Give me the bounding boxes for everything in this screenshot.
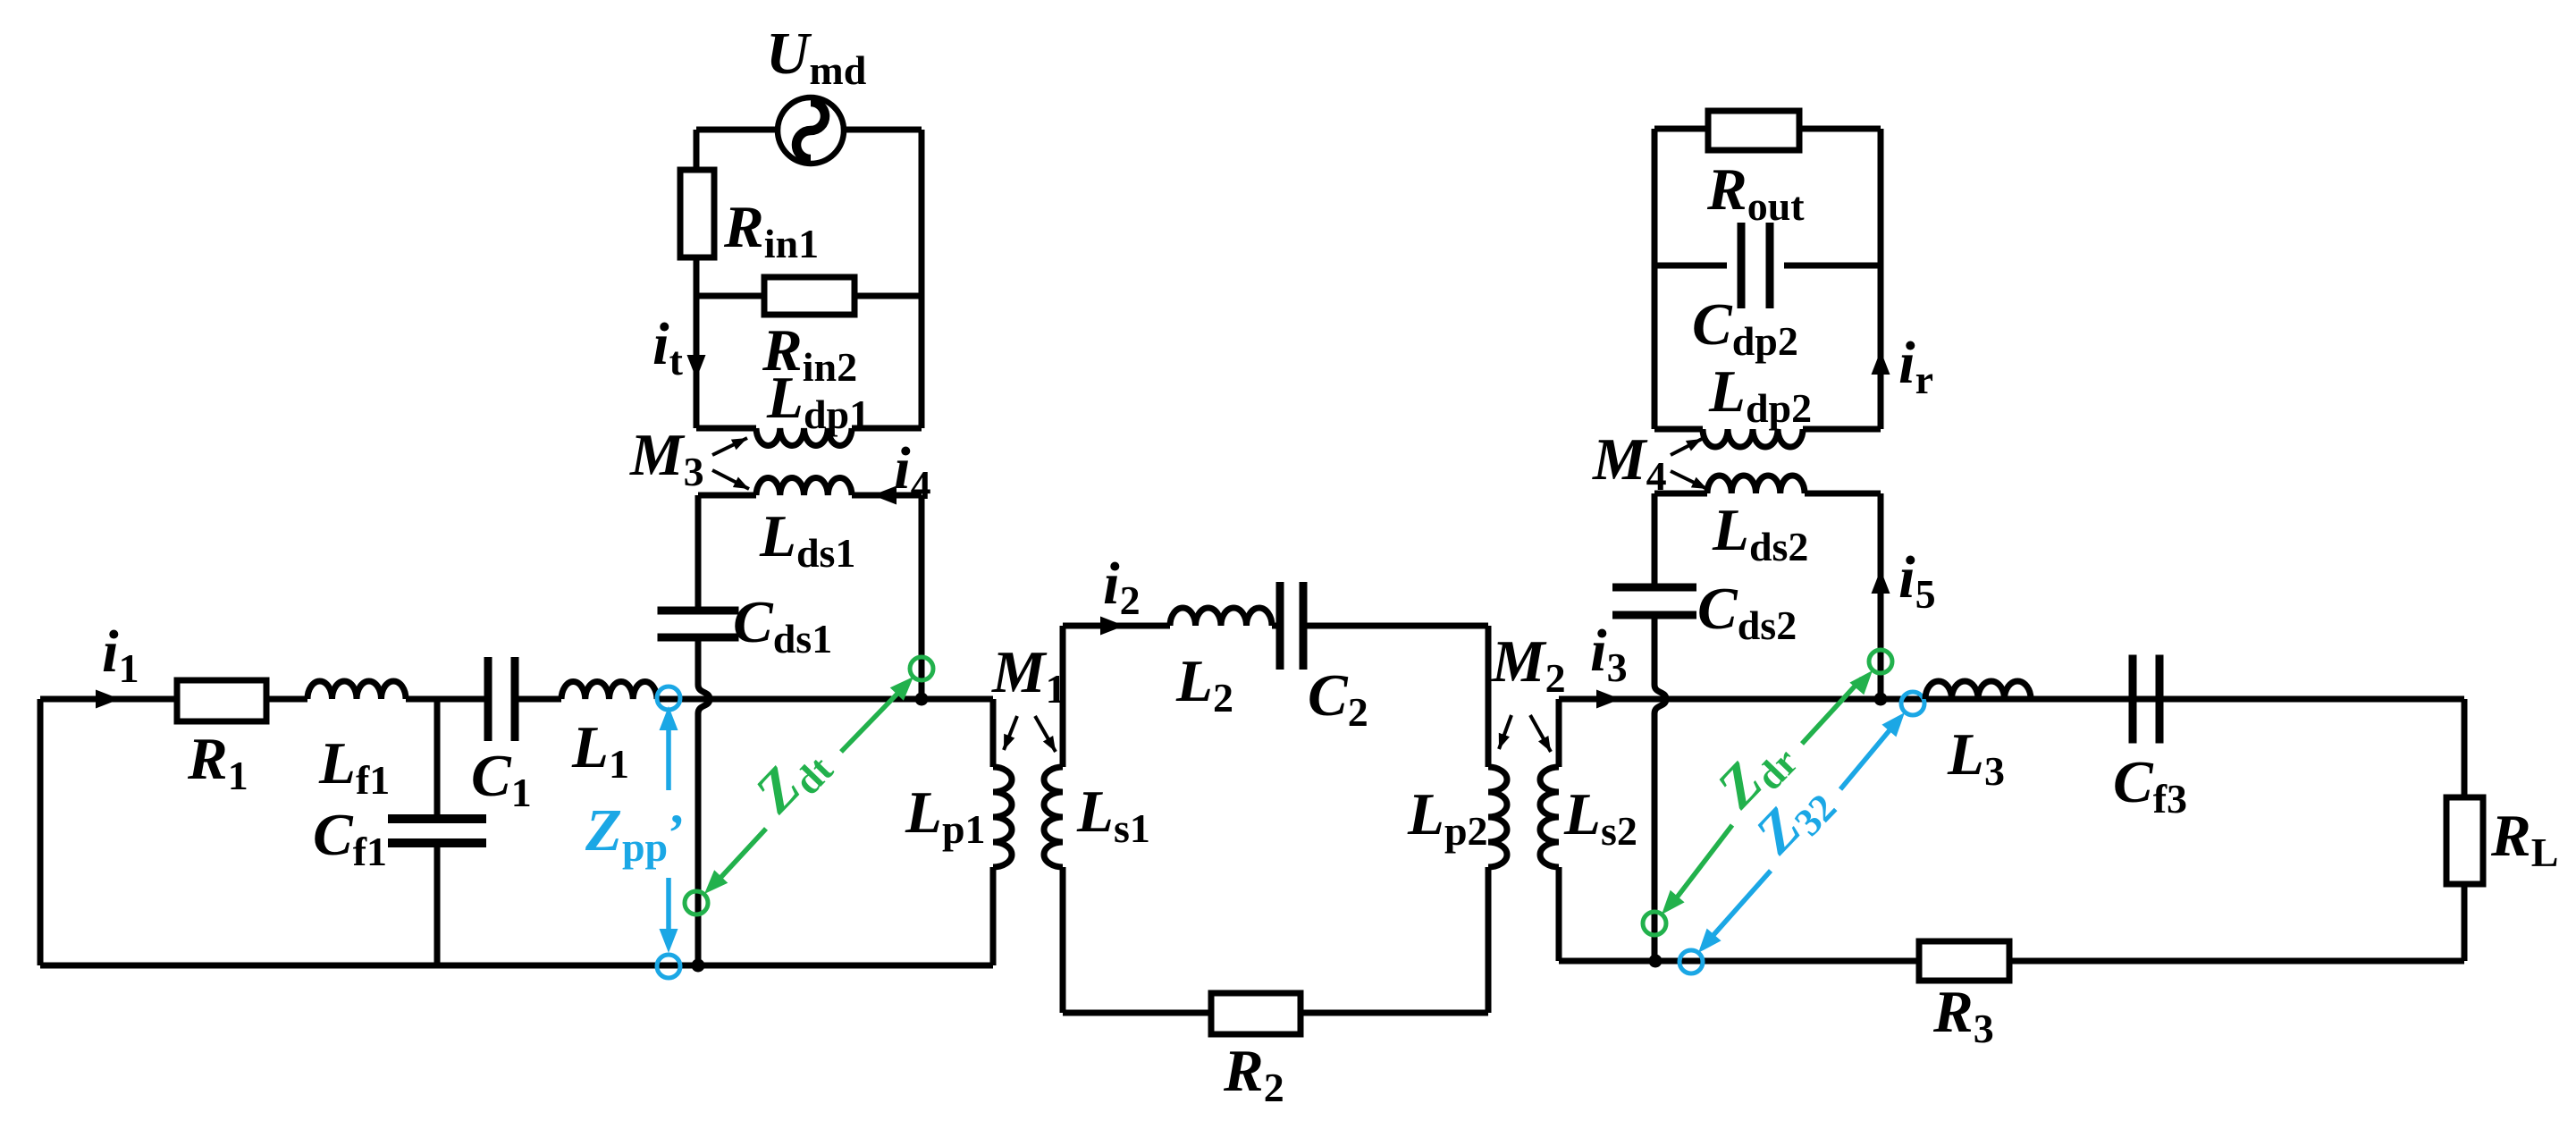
wire middle top left [1063, 623, 1170, 629]
svg-text:Rin1: Rin1 [723, 194, 819, 266]
node circle Zdt lower [685, 891, 708, 914]
svg-text:R3: R3 [1932, 979, 1994, 1051]
wire top loop left rail upper [694, 130, 700, 170]
wire top loop right rail [919, 130, 925, 428]
node circle Z32 bottom [1679, 950, 1703, 973]
svg-text:Lds2: Lds2 [1712, 497, 1808, 569]
inductor Lp1 [993, 767, 1012, 867]
svg-text:L3: L3 [1947, 721, 2005, 794]
label Zdt [742, 729, 841, 829]
capacitor Cf1 [388, 814, 486, 823]
impedance marker Zpp arrow up [660, 706, 678, 730]
junction dot bottom left [692, 959, 705, 973]
svg-text:Umd: Umd [766, 21, 867, 93]
wire out loop bottom left [1654, 426, 1703, 433]
inductor Ldp2 [1703, 429, 1803, 447]
svg-text:Zdt: Zdt [742, 729, 841, 829]
inductor L1 [561, 682, 657, 699]
node circle Zdt upper [910, 657, 933, 680]
wire C2 to corner [1303, 623, 1488, 629]
capacitor Cdp2 [1738, 223, 1746, 308]
capacitor Cf3 [2129, 655, 2137, 744]
svg-text:RL: RL [2490, 803, 2558, 875]
inductor L3 [1925, 681, 2031, 699]
coupling arrow M3 lower [712, 470, 749, 489]
svg-text:Zpp’: Zpp’ [585, 797, 685, 870]
wire Lds1 top right [852, 493, 922, 499]
inductor Lf1 [307, 681, 406, 699]
svg-text:M3: M3 [629, 422, 704, 494]
junction dot i5 node [1874, 693, 1888, 706]
inductor L2 [1170, 608, 1272, 626]
impedance marker Zdt arrow lower [704, 870, 728, 894]
wire Lp1 rail lower [990, 867, 997, 965]
wire Lds1 top left [698, 493, 756, 499]
wire Rin2 row right [854, 293, 922, 299]
inductor Lds2 [1707, 476, 1805, 493]
current arrow i4 [872, 486, 897, 505]
coupling arrow M2 left [1499, 715, 1511, 749]
label Z32 [1742, 768, 1845, 871]
coupling arrow M2 right [1530, 715, 1551, 752]
capacitor Cds1 [658, 607, 739, 615]
wire Lp1 rail upper [990, 699, 997, 767]
svg-text:C1: C1 [471, 743, 532, 815]
impedance marker Zdt arrow upper [841, 694, 897, 752]
wire main right [1559, 696, 2464, 703]
resistor Rout [1708, 111, 1799, 150]
wire Lp2 rail upper [1486, 626, 1492, 767]
junction dot main node t [915, 693, 929, 706]
svg-text:it: it [652, 311, 684, 383]
current arrow i2 [1100, 617, 1124, 636]
svg-text:Ls1: Ls1 [1076, 779, 1150, 851]
coupling arrow M4 upper [1671, 439, 1702, 455]
wire out loop top right [1799, 126, 1881, 132]
svg-text:Cds2: Cds2 [1697, 576, 1797, 648]
wire Ls1 rail lower [1060, 867, 1066, 1013]
wire out loop right rail [1878, 129, 1884, 429]
capacitor C2 [1276, 582, 1284, 670]
wire top loop left rail lower [694, 257, 700, 428]
svg-text:Ls2: Ls2 [1563, 781, 1637, 854]
current arrow it [687, 355, 706, 379]
svg-text:Lp1: Lp1 [905, 779, 986, 852]
node circle Zdr top [1869, 650, 1892, 673]
impedance marker Z32 arrow upper [1840, 725, 1894, 789]
svg-text:Cf3: Cf3 [2113, 749, 2187, 821]
svg-text:i2: i2 [1103, 551, 1141, 623]
impedance marker Z32 arrow lower [1698, 929, 1722, 953]
wire Lf1 to C1 [406, 696, 484, 703]
wire L1 to Lp1 corner [657, 696, 993, 703]
current arrow ir [1872, 350, 1890, 375]
wire Lds1 right rail [919, 495, 925, 699]
wire L2 to C2 [1272, 623, 1280, 629]
coupling arrow M1 left [1004, 716, 1017, 750]
label Zdr [1704, 722, 1806, 825]
svg-text:Cf1: Cf1 [313, 802, 387, 874]
wire hop Cds1 branch over main wire [698, 636, 710, 965]
wire out loop left rail [1652, 129, 1658, 429]
wire Ls1 rail upper [1060, 626, 1066, 767]
svg-text:Lds1: Lds1 [759, 503, 855, 576]
inductor Lds1 [756, 478, 852, 495]
wire Lds2 left rail upper [1652, 493, 1658, 585]
current arrow i5 [1872, 569, 1890, 594]
wire right rail upper [2462, 699, 2468, 797]
svg-text:M1: M1 [991, 639, 1066, 712]
wire Lds2 top left [1654, 491, 1707, 497]
svg-text:i1: i1 [102, 619, 139, 691]
impedance marker Zdr arrow upper [1802, 678, 1862, 744]
wire top loop bottom right [852, 425, 922, 432]
capacitor C1 [484, 657, 492, 741]
inductor Ldp1 [756, 428, 852, 445]
wire bottom right [1559, 958, 2464, 965]
svg-text:i5: i5 [1898, 544, 1936, 617]
svg-text:Cds1: Cds1 [733, 589, 832, 661]
svg-text:Lp2: Lp2 [1407, 781, 1488, 854]
svg-text:L2: L2 [1175, 648, 1233, 720]
wire Lds2 top right [1805, 491, 1881, 497]
resistor R2 [1211, 993, 1301, 1034]
impedance marker Zdr arrow lower [1662, 890, 1685, 914]
wire top loop top right [845, 127, 922, 133]
junction dot bottom right [1649, 955, 1663, 968]
svg-text:Lf1: Lf1 [318, 730, 390, 803]
wire hop Cds2 branch over main wire [1654, 615, 1666, 961]
wire Cf1 to bottom [434, 843, 441, 965]
node circle Zdr lower [1643, 912, 1666, 935]
wire top loop bottom left [696, 425, 756, 432]
wire Ls2 rail lower [1556, 867, 1562, 961]
svg-text:M4: M4 [1592, 426, 1667, 499]
svg-text:R2: R2 [1223, 1038, 1284, 1110]
wire top loop top left [696, 127, 777, 133]
inductor Ls2 [1540, 767, 1559, 867]
node circle Zpp top [657, 687, 680, 710]
resistor R3 [1919, 941, 2009, 981]
wire Cdp2 row right [1784, 263, 1881, 269]
svg-text:Ldp2: Ldp2 [1708, 358, 1812, 431]
wire Lds2 right rail [1878, 493, 1884, 699]
wire Lp2 rail lower [1486, 867, 1492, 1013]
svg-text:ir: ir [1898, 330, 1933, 402]
svg-text:R1: R1 [187, 726, 248, 798]
inductor Ls1 [1044, 767, 1063, 867]
wire left rail [38, 699, 44, 965]
wire C1 to L1 [518, 696, 561, 703]
resistor Rin1 [680, 170, 714, 257]
coupling arrow M3 upper [712, 438, 747, 455]
wire main left segment [40, 696, 177, 703]
wire Lds1 left rail upper [695, 495, 702, 608]
wire R1 to Lf1 [266, 696, 307, 703]
svg-text:i3: i3 [1590, 618, 1628, 690]
wire out loop bottom right [1803, 426, 1881, 433]
node Cf1 branch [434, 699, 441, 815]
node circle Zpp bottom [657, 955, 680, 978]
coupling arrow M4 lower [1671, 471, 1707, 489]
wire bottom left [40, 963, 993, 969]
wire right rail lower [2462, 884, 2468, 961]
inductor Lp2 [1488, 767, 1507, 867]
wire middle bottom [1063, 1010, 1488, 1016]
current arrow i3 [1596, 690, 1621, 709]
wire out loop top left [1654, 126, 1708, 132]
svg-text:Rout: Rout [1706, 156, 1805, 229]
svg-text:M2: M2 [1491, 628, 1566, 701]
capacitor Cds2 [1612, 584, 1696, 592]
impedance marker Zpp arrow down [666, 878, 671, 933]
source Umd [778, 97, 844, 164]
svg-text:i4: i4 [894, 435, 931, 508]
node circle Z32 top [1901, 692, 1924, 715]
current arrow i1 [96, 690, 120, 709]
svg-text:L1: L1 [571, 714, 629, 787]
resistor RL [2446, 797, 2483, 884]
resistor R1 [177, 680, 266, 721]
svg-text:C2: C2 [1308, 662, 1368, 735]
coupling arrow M1 right [1035, 716, 1056, 752]
wire Ls2 rail upper [1556, 699, 1562, 767]
wire Cdp2 row left [1654, 263, 1727, 269]
resistor Rin2 [764, 277, 854, 315]
wire Rin2 row left [696, 293, 764, 299]
